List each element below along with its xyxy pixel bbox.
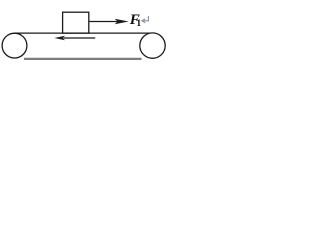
force F1 arrow shaft [89,21,117,23]
right pulley [140,33,165,58]
belt velocity arrow head [54,36,65,41]
paragraph return mark [142,16,148,23]
left pulley [2,33,27,58]
block [63,12,89,33]
svg-text:1: 1 [136,19,141,29]
belt bottom line (gray) [24,58,142,60]
belt velocity arrow (left) shaft [64,37,96,39]
force F1 arrow head [115,19,129,24]
background [0,0,168,71]
belt top line [14,32,153,34]
